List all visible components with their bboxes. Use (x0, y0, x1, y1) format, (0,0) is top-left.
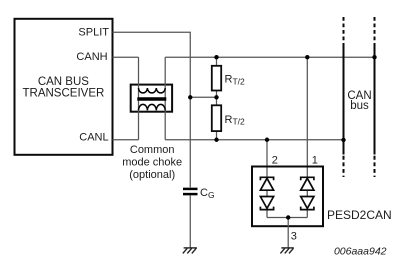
svg-text:1: 1 (312, 155, 318, 167)
PESD2CAN box (252, 167, 323, 227)
label CAN bus (347, 90, 371, 112)
ground below PESD pin 3 (280, 248, 293, 254)
junction node on CANH at resistor top (214, 55, 218, 59)
choke winding top (139, 88, 166, 93)
wire CANH from transceiver to choke (113, 56, 139, 58)
junction node on CANL at resistor bottom (214, 138, 218, 142)
resistor RT/2 lower (212, 105, 221, 131)
svg-text:2: 2 (272, 155, 278, 167)
resistor RT/2 upper (212, 66, 221, 91)
choke core bar (137, 97, 166, 101)
wire choke right vertical (164, 57, 166, 140)
wire PESD pin 1 (from CANH) (306, 57, 308, 177)
junction node resistor midpoint (214, 95, 218, 99)
svg-text:3: 3 (291, 230, 297, 242)
junction node SPLIT tap (188, 95, 192, 99)
diode pin2 bottom (cathode bar down) (260, 197, 273, 210)
label Common mode choke (optional) (122, 144, 182, 181)
svg-text:TRANSCEIVER: TRANSCEIVER (23, 88, 105, 100)
diode pin1 bottom (cathode bar down) (301, 197, 314, 210)
junction node on CANH at PESD pin1 (305, 55, 309, 59)
diode pin1 top (cathode bar up) (301, 177, 314, 190)
CAN bus line right (CANH side) (374, 17, 376, 177)
wire resistor column vertical (216, 57, 218, 140)
svg-text:CAN BUS: CAN BUS (38, 76, 89, 88)
wire CG to ground (189, 195, 191, 247)
svg-text:CANH: CANH (76, 51, 107, 63)
diode pin2 top (cathode bar up) (260, 177, 273, 190)
wire pin 3 to ground (287, 218, 289, 248)
svg-text:(optional): (optional) (129, 169, 175, 181)
junction node PESD pin3 (286, 215, 290, 219)
wire PESD internal bottom connector (267, 217, 307, 219)
svg-text:Common: Common (130, 144, 175, 156)
capacitor CG plate top (183, 188, 198, 191)
CAN bus line left (CANL side) (343, 17, 345, 177)
junction node CANH to right bus line (372, 55, 376, 59)
wire diode column pin1 internal (306, 190, 308, 217)
common mode choke box (131, 85, 172, 112)
svg-text:SPLIT: SPLIT (78, 27, 109, 39)
wire SPLIT horizontal and vertical down to CG (113, 32, 191, 187)
svg-text:RT/2: RT/2 (225, 114, 246, 127)
svg-text:RT/2: RT/2 (225, 74, 246, 87)
svg-text:006aaa942: 006aaa942 (334, 246, 387, 258)
wire choke left vertical (138, 57, 140, 140)
ground below CG (183, 248, 197, 254)
wire CANL main (choke to CAN bus) (165, 139, 343, 141)
junction node CANL to left bus line (341, 138, 345, 142)
wire diode column pin2 internal (266, 190, 268, 217)
choke winding bottom (139, 104, 166, 110)
wire PESD pin 2 (from CANL) (266, 140, 268, 178)
transceiver U1 box (15, 19, 113, 155)
transceiver label CAN BUS TRANSCEIVER (23, 76, 105, 99)
wire CANL from transceiver to choke (113, 139, 139, 141)
svg-text:PESD2CAN: PESD2CAN (327, 208, 392, 222)
svg-text:bus: bus (350, 100, 369, 112)
junction node on CANL at PESD pin2 (265, 138, 269, 142)
svg-text:mode choke: mode choke (122, 157, 182, 169)
wire SPLIT tap to resistor midpoint (190, 96, 216, 98)
capacitor CG plate bottom (183, 193, 198, 196)
svg-text:CANL: CANL (79, 131, 108, 143)
wire CANH main (choke to CAN bus) (165, 56, 374, 58)
